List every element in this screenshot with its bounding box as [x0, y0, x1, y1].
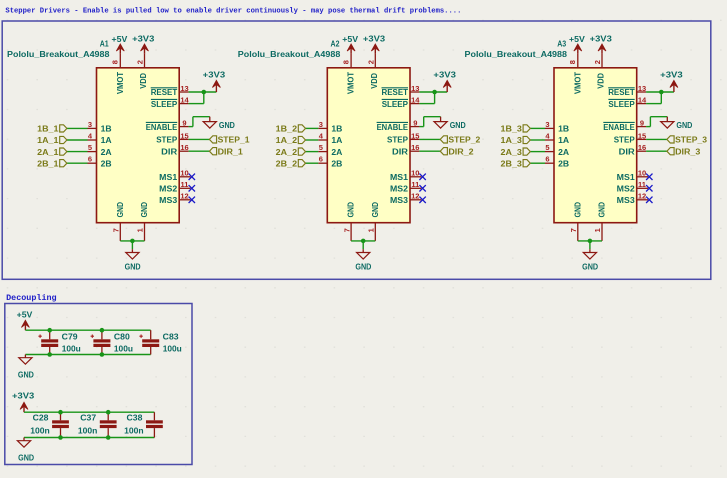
svg-text:ENABLE: ENABLE	[146, 122, 178, 132]
svg-text:2B_3: 2B_3	[501, 158, 523, 168]
svg-text:11: 11	[411, 180, 419, 189]
svg-text:C28: C28	[33, 413, 49, 423]
svg-text:MS1: MS1	[159, 172, 177, 182]
svg-text:8: 8	[341, 60, 350, 64]
svg-text:ENABLE: ENABLE	[603, 122, 635, 132]
svg-text:+3V3: +3V3	[203, 70, 226, 80]
svg-text:MS1: MS1	[617, 172, 635, 182]
svg-text:STEP: STEP	[387, 135, 408, 145]
svg-text:2B_1: 2B_1	[37, 158, 59, 168]
svg-text:+5V: +5V	[112, 34, 128, 44]
svg-text:10: 10	[180, 169, 188, 178]
svg-text:VDD: VDD	[138, 73, 148, 89]
svg-text:SLEEP: SLEEP	[382, 99, 409, 109]
svg-text:7: 7	[112, 228, 121, 232]
svg-text:1B: 1B	[331, 124, 342, 134]
svg-text:100n: 100n	[78, 426, 98, 436]
svg-text:RESET: RESET	[151, 87, 178, 97]
svg-text:GND: GND	[572, 202, 582, 217]
svg-text:+3V3: +3V3	[660, 70, 683, 80]
svg-text:1A_1: 1A_1	[37, 135, 59, 145]
svg-text:10: 10	[638, 169, 646, 178]
svg-text:SLEEP: SLEEP	[608, 99, 635, 109]
svg-text:6: 6	[319, 155, 323, 164]
svg-text:12: 12	[411, 192, 419, 201]
svg-text:DIR_1: DIR_1	[218, 146, 243, 156]
svg-text:1: 1	[593, 228, 602, 232]
svg-text:VDD: VDD	[369, 73, 379, 89]
svg-text:1B_3: 1B_3	[501, 124, 523, 134]
svg-text:+3V3: +3V3	[363, 33, 385, 43]
svg-text:C83: C83	[163, 331, 179, 341]
svg-text:C37: C37	[80, 413, 96, 423]
svg-text:GND: GND	[346, 202, 356, 217]
svg-text:STEP_3: STEP_3	[675, 135, 707, 145]
svg-text:+3V3: +3V3	[132, 33, 154, 43]
svg-text:2B: 2B	[101, 158, 112, 168]
svg-text:13: 13	[180, 84, 188, 93]
svg-text:1B: 1B	[101, 124, 112, 134]
svg-text:+5V: +5V	[17, 310, 33, 320]
svg-text:1A: 1A	[331, 135, 342, 145]
svg-text:A2: A2	[331, 38, 340, 48]
svg-text:13: 13	[411, 84, 419, 93]
svg-text:VMOT: VMOT	[115, 71, 125, 94]
svg-text:14: 14	[411, 96, 420, 105]
svg-text:1: 1	[366, 228, 375, 232]
svg-text:GND: GND	[450, 120, 466, 130]
svg-text:11: 11	[638, 180, 646, 189]
svg-text:RESET: RESET	[608, 87, 635, 97]
svg-text:VMOT: VMOT	[346, 71, 356, 94]
svg-text:2A: 2A	[558, 147, 569, 157]
svg-text:12: 12	[180, 192, 188, 201]
svg-text:14: 14	[638, 96, 647, 105]
svg-text:100u: 100u	[163, 343, 182, 353]
svg-text:8: 8	[568, 60, 577, 64]
svg-text:7: 7	[343, 228, 352, 232]
svg-text:1A_3: 1A_3	[501, 135, 523, 145]
svg-text:2B: 2B	[558, 158, 569, 168]
svg-text:5: 5	[545, 143, 549, 152]
svg-text:2A_2: 2A_2	[276, 147, 298, 157]
svg-text:GND: GND	[18, 452, 34, 462]
svg-text:2B_2: 2B_2	[276, 158, 298, 168]
svg-text:GND: GND	[18, 369, 34, 379]
svg-text:2A_1: 2A_1	[37, 147, 59, 157]
svg-text:16: 16	[638, 143, 646, 152]
svg-text:SLEEP: SLEEP	[151, 99, 178, 109]
svg-text:GND: GND	[115, 202, 125, 217]
svg-text:DIR_2: DIR_2	[448, 146, 473, 156]
svg-text:+5V: +5V	[342, 34, 358, 44]
svg-text:1A_2: 1A_2	[276, 135, 298, 145]
svg-text:DIR: DIR	[619, 146, 636, 156]
svg-text:6: 6	[88, 155, 92, 164]
svg-text:+5V: +5V	[569, 34, 585, 44]
svg-text:1B_1: 1B_1	[37, 124, 59, 134]
svg-text:DIR_3: DIR_3	[675, 146, 700, 156]
svg-text:STEP: STEP	[156, 135, 177, 145]
svg-text:9: 9	[640, 119, 644, 128]
svg-text:+3V3: +3V3	[433, 70, 456, 80]
svg-text:A3: A3	[557, 38, 566, 48]
svg-text:7: 7	[569, 228, 578, 232]
svg-text:2A: 2A	[331, 147, 342, 157]
svg-text:100n: 100n	[124, 426, 144, 436]
svg-text:3: 3	[319, 120, 323, 129]
svg-text:C79: C79	[62, 331, 78, 341]
svg-text:A1: A1	[100, 38, 109, 48]
svg-text:MS2: MS2	[159, 184, 177, 194]
svg-text:14: 14	[180, 96, 189, 105]
svg-text:+3V3: +3V3	[12, 391, 34, 401]
svg-text:2A: 2A	[101, 147, 112, 157]
svg-text:16: 16	[411, 143, 419, 152]
svg-text:C38: C38	[127, 413, 143, 423]
svg-text:GND: GND	[370, 202, 380, 217]
svg-text:GND: GND	[355, 261, 371, 271]
svg-text:GND: GND	[125, 261, 141, 271]
svg-text:MS3: MS3	[617, 195, 635, 205]
svg-text:1: 1	[136, 228, 145, 232]
svg-text:VMOT: VMOT	[572, 71, 582, 94]
svg-text:VDD: VDD	[596, 73, 606, 89]
svg-text:100n: 100n	[30, 426, 50, 436]
svg-text:12: 12	[638, 192, 646, 201]
svg-text:15: 15	[411, 131, 419, 140]
svg-text:9: 9	[182, 119, 186, 128]
svg-text:3: 3	[88, 120, 92, 129]
svg-text:MS2: MS2	[617, 184, 635, 194]
svg-text:5: 5	[319, 143, 323, 152]
svg-text:Decoupling: Decoupling	[6, 293, 57, 303]
svg-text:2: 2	[366, 60, 375, 64]
svg-text:15: 15	[638, 131, 646, 140]
svg-text:GND: GND	[219, 120, 235, 130]
svg-text:1A: 1A	[558, 135, 569, 145]
svg-text:16: 16	[180, 143, 188, 152]
svg-text:MS2: MS2	[390, 184, 408, 194]
svg-text:Stepper Drivers - Enable is p: Stepper Drivers - Enable is pulled low t…	[5, 8, 461, 16]
svg-text:DIR: DIR	[161, 146, 178, 156]
svg-text:2: 2	[136, 60, 145, 64]
svg-text:MS3: MS3	[390, 195, 408, 205]
svg-text:2B: 2B	[331, 158, 342, 168]
svg-text:1B: 1B	[558, 124, 569, 134]
svg-text:1B_2: 1B_2	[276, 124, 298, 134]
svg-text:ENABLE: ENABLE	[377, 122, 409, 132]
svg-text:STEP_2: STEP_2	[448, 135, 480, 145]
svg-text:GND: GND	[582, 261, 598, 271]
svg-text:6: 6	[545, 155, 549, 164]
svg-text:Pololu_Breakout_A4988: Pololu_Breakout_A4988	[238, 49, 341, 59]
svg-text:STEP_1: STEP_1	[218, 135, 250, 145]
svg-text:13: 13	[638, 84, 646, 93]
svg-text:GND: GND	[676, 120, 692, 130]
svg-text:3: 3	[545, 120, 549, 129]
svg-text:RESET: RESET	[382, 87, 409, 97]
svg-text:MS3: MS3	[159, 195, 177, 205]
svg-text:GND: GND	[597, 202, 607, 217]
svg-text:1A: 1A	[101, 135, 112, 145]
svg-text:2A_3: 2A_3	[501, 147, 523, 157]
svg-text:11: 11	[181, 180, 189, 189]
svg-text:C80: C80	[114, 331, 130, 341]
svg-text:100u: 100u	[114, 343, 133, 353]
svg-text:DIR: DIR	[392, 146, 409, 156]
svg-text:MS1: MS1	[390, 172, 408, 182]
svg-text:2: 2	[593, 60, 602, 64]
svg-text:5: 5	[88, 143, 92, 152]
svg-text:GND: GND	[139, 202, 149, 217]
svg-text:100u: 100u	[62, 343, 81, 353]
svg-text:STEP: STEP	[614, 135, 635, 145]
svg-text:9: 9	[413, 119, 417, 128]
svg-text:8: 8	[111, 60, 120, 64]
svg-text:Pololu_Breakout_A4988: Pololu_Breakout_A4988	[7, 49, 110, 59]
svg-text:+3V3: +3V3	[590, 33, 612, 43]
svg-text:15: 15	[180, 131, 188, 140]
svg-text:10: 10	[411, 169, 419, 178]
svg-text:Pololu_Breakout_A4988: Pololu_Breakout_A4988	[465, 49, 568, 59]
